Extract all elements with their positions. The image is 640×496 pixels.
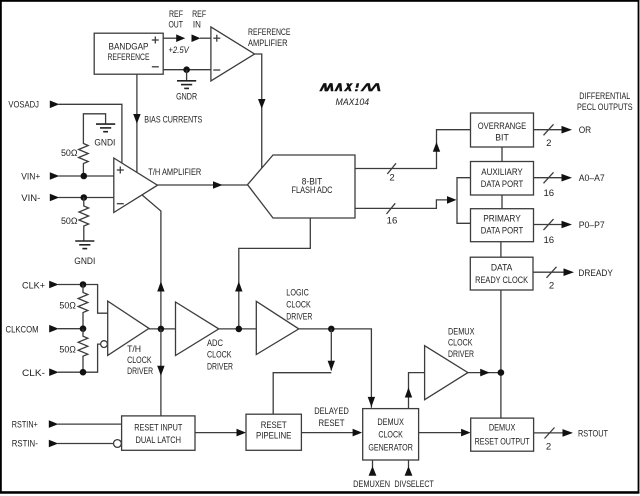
svg-text:VOSADJ: VOSADJ [8,100,39,111]
svg-text:VIN-: VIN- [21,193,40,204]
inverting bubble T/H clock driver [101,341,108,348]
pin - of reference amplifier [213,69,220,71]
svg-text:DEMUX: DEMUX [489,422,516,433]
svg-text:RSTOUT: RSTOUT [578,429,608,440]
wire reference amplifier output to flash ADC [255,54,266,169]
svg-text:2: 2 [546,442,551,453]
svg-text:BIT: BIT [495,132,509,143]
svg-text:+2.5V: +2.5V [168,45,190,56]
svg-text:50Ω: 50Ω [59,344,76,355]
block DEMUX RESET OUTPUT [471,418,534,451]
svg-text:REFERENCE: REFERENCE [248,27,291,38]
svg-text:ADC: ADC [207,338,223,349]
svg-text:CLOCK: CLOCK [448,338,473,349]
wire CLK- input [49,344,100,376]
buffer ADC CLOCK DRIVER [176,302,234,372]
svg-text:50Ω: 50Ω [61,216,78,227]
svg-text:CLOCK: CLOCK [286,300,311,311]
label REF IN [192,9,206,31]
svg-text:GNDI: GNDI [94,137,115,148]
node CLK- resistor junction [80,369,87,376]
svg-text:DEMUX: DEMUX [448,326,475,337]
svg-text:CLOCK: CLOCK [378,430,403,441]
block OVERRANGE BIT [471,113,534,147]
resistor 50ohm VIN+ [61,144,88,177]
svg-text:DATA PORT: DATA PORT [481,226,524,237]
svg-text:REF: REF [192,9,206,20]
wire T/H clock driver output to ADC clock driver [149,328,176,330]
svg-text:REF: REF [169,9,183,20]
block DATA READY CLOCK [470,257,533,290]
label REFERENCE AMPLIFIER [248,27,291,49]
wire primary to data ready clock connector [500,242,502,258]
svg-text:T/H AMPLIFIER: T/H AMPLIFIER [148,167,201,178]
svg-text:IN: IN [193,19,201,30]
svg-text:CLOCK: CLOCK [127,355,152,366]
svg-text:DRIVER: DRIVER [127,366,153,377]
node ADC clock line junction [236,326,243,333]
node CLK+ resistor junction [80,281,87,288]
wire bandgap minus to reference amplifier [163,69,211,71]
svg-text:DRIVER: DRIVER [286,311,312,322]
wire demux clock driver output [468,369,501,377]
svg-text:PIPELINE: PIPELINE [256,430,292,441]
node T/H clock driver output junction [158,326,165,333]
ground GNDI lower [74,241,95,267]
wire VIN+ input [50,172,114,180]
wire DEMUXEN input arrow [369,460,377,476]
wire ADC clock driver output to logic clock driver [219,328,256,330]
svg-text:CLOCK: CLOCK [207,350,232,361]
buffer T/H CLOCK DRIVER [108,301,153,377]
block AUXILIARY DATA PORT [471,162,534,196]
svg-text:DEMUX: DEMUX [377,417,404,428]
node VIN+ resistor junction [81,173,88,180]
svg-text:16: 16 [543,235,554,246]
op-amp reference amplifier [211,27,255,81]
svg-text:P0–P7: P0–P7 [579,220,605,231]
svg-text:16: 16 [543,188,554,199]
block PRIMARY DATA PORT [471,209,534,242]
wire data ready clock to demux reset output [500,290,502,418]
wire P0-P7 output [534,219,573,246]
wire demux clock generator to demux clock driver [405,373,425,409]
svg-text:2: 2 [546,138,551,149]
block RESET PIPELINE [246,414,301,450]
svg-text:2: 2 [549,280,554,291]
wire DREADY output [533,267,574,292]
wire T/H clock driver to reset input dual latch [157,329,164,416]
wire RSTOUT output [534,428,573,453]
svg-text:RESET INPUT: RESET INPUT [134,423,182,434]
inverting bubble RSTIN- [114,440,122,448]
svg-text:16: 16 [387,216,398,227]
svg-text:GENERATOR: GENERATOR [368,442,413,453]
wire data port bracket [457,178,471,224]
wire A0-A7 output [534,172,573,199]
svg-text:RESET OUTPUT: RESET OUTPUT [475,437,530,448]
node demux clock junction [498,369,505,376]
svg-text:VIN+: VIN+ [21,171,40,182]
label DELAYED RESET [314,406,349,429]
node logic clock output junction [328,326,335,333]
svg-text:AUXILIARY: AUXILIARY [481,167,523,178]
svg-text:OUT: OUT [168,19,183,30]
svg-text:CLKCOM: CLKCOM [6,325,39,336]
svg-text:AMPLIFIER: AMPLIFIER [248,38,288,49]
svg-text:DIFFERENTIAL: DIFFERENTIAL [579,91,630,102]
svg-text:2: 2 [389,173,394,184]
svg-text:DRIVER: DRIVER [207,361,233,372]
svg-text:RESET: RESET [261,420,287,431]
resistor 50ohm CLK+ [59,285,87,329]
svg-text:GNDI: GNDI [74,256,95,267]
wire CLK+ input [49,281,107,314]
svg-text:READY CLOCK: READY CLOCK [475,275,528,286]
node CLKCOM resistor junction [80,325,87,332]
flash ADC U2 8-BIT FLASH ADC [248,155,356,218]
wire RSTIN- input [49,440,114,448]
svg-text:FLASH ADC: FLASH ADC [292,185,333,196]
wire OR output [534,124,573,149]
pin + of reference amplifier [213,35,220,42]
svg-text:RESET: RESET [319,418,345,429]
wire delayed reset to demux clock generator [301,429,362,437]
svg-text:LOGIC: LOGIC [286,288,309,299]
svg-text:MAX104: MAX104 [336,97,370,108]
label REF OUT [168,9,183,31]
node bandgap-GNDR junction [183,66,190,73]
pin + of bandgap [152,37,159,44]
svg-text:BANDGAP: BANDGAP [109,41,149,52]
wire T/H amplifier clock input from T/H clock driver [142,195,165,329]
svg-text:OR: OR [579,125,592,136]
wire VIN- input [50,194,114,202]
svg-text:OVERRANGE: OVERRANGE [478,121,527,132]
wire flash ADC clock input from ADC clock driver [235,218,310,329]
svg-text:DRIVER: DRIVER [448,349,474,360]
label DIFFERENTIAL PECL OUTPUTS [577,91,633,113]
svg-text:T/H: T/H [127,344,141,355]
wire flash ADC lower bus to data ports [355,196,457,208]
op-amp T/H amplifier [114,158,158,213]
svg-text:DATA: DATA [491,263,513,274]
svg-text:RSTIN-: RSTIN- [12,439,38,450]
svg-text:DELAYED: DELAYED [314,406,349,417]
wire logic clock driver output to demux clock generator [299,329,375,408]
wire T/H amplifier output to flash ADC [158,181,248,189]
svg-text:50Ω: 50Ω [61,148,78,159]
svg-text:50Ω: 50Ω [59,300,76,311]
svg-text:DATA PORT: DATA PORT [481,179,524,190]
pin + of T/H amplifier [117,167,124,174]
buffer DEMUX CLOCK DRIVER [425,326,475,399]
logo MAXIM [319,83,380,91]
wire RSTIN+ input [49,420,122,428]
svg-text:DIVSELECT: DIVSELECT [394,479,434,490]
wire logic clock to reset pipeline [273,329,335,414]
wire REF IN arrow to reference amplifier [192,34,211,42]
ground GNDI upper with wire [83,114,115,149]
svg-text:RSTIN+: RSTIN+ [12,419,38,430]
bus slash 16 on ADC lower bus [387,203,398,226]
wire VOSADJ input [50,101,122,164]
wire REF OUT arrow from bandgap [163,34,185,42]
svg-text:REFERENCE: REFERENCE [108,52,150,63]
buffer LOGIC CLOCK DRIVER [256,288,312,355]
pin - of bandgap [152,66,159,68]
svg-text:DUAL LATCH: DUAL LATCH [136,435,182,446]
bus slash 2 on ADC upper bus [387,163,396,183]
svg-text:CLK-: CLK- [22,368,45,379]
svg-text:CLK+: CLK+ [22,280,45,291]
svg-text:BIAS CURRENTS: BIAS CURRENTS [144,114,202,125]
resistor 50ohm VIN- [61,198,89,241]
bandgap reference box U1 [94,33,163,74]
wire flash ADC upper bus to overrange bit [355,130,471,169]
wire DIVSELECT input arrow [405,460,413,476]
svg-text:PRIMARY: PRIMARY [483,214,521,225]
node VIN- resistor junction [81,194,88,201]
wire demux clock generator to demux reset output [419,429,471,437]
wire overrange to auxiliary connector [501,147,503,162]
svg-text:DEMUXEN: DEMUXEN [353,479,390,490]
ground GNDR [176,70,197,103]
svg-text:PECL OUTPUTS: PECL OUTPUTS [577,102,633,113]
svg-text:DREADY: DREADY [578,268,613,279]
wire bias currents from bandgap to T/H amplifier [133,74,140,172]
svg-text:A0–A7: A0–A7 [579,173,605,184]
wire auxiliary to primary connector [501,195,503,209]
wire latch output to reset pipeline [195,429,246,437]
block DEMUX CLOCK GENERATOR [363,409,419,460]
svg-text:GNDR: GNDR [176,91,197,102]
wire CLKCOM input [49,325,83,333]
block RESET INPUT DUAL LATCH [122,416,195,450]
pin - of T/H amplifier [117,203,124,205]
resistor 50ohm CLK- [59,329,87,373]
